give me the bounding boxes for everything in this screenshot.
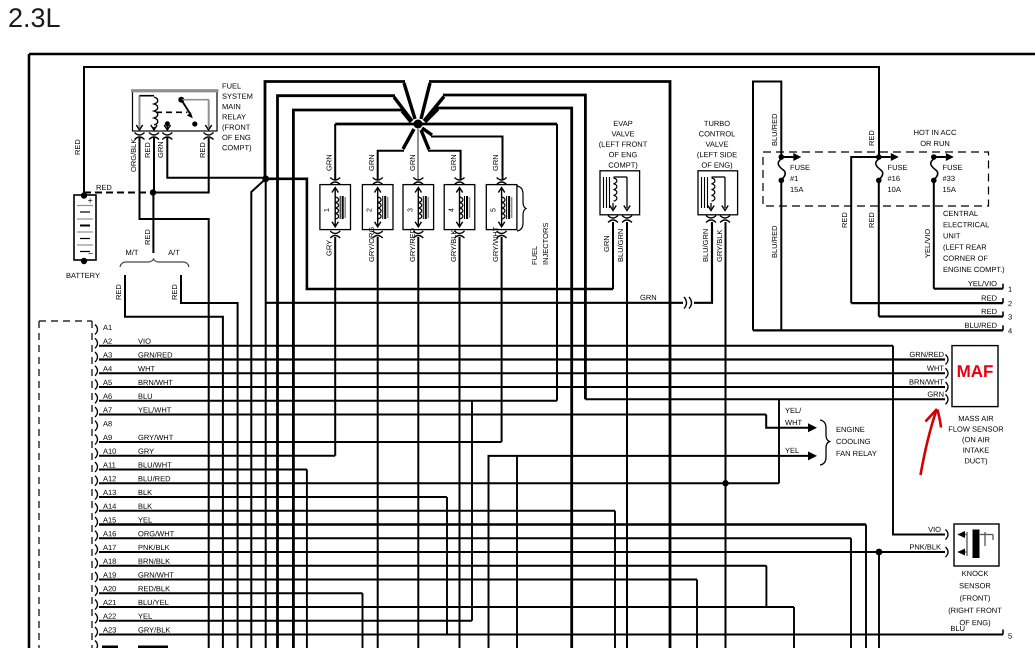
svg-text:A19: A19	[103, 571, 116, 580]
svg-text:RED: RED	[143, 142, 152, 158]
svg-text:RED: RED	[840, 212, 849, 228]
svg-text:ENGINE COMPT.): ENGINE COMPT.)	[943, 265, 1005, 274]
svg-text:WHT: WHT	[785, 418, 802, 427]
svg-text:#1: #1	[790, 174, 798, 183]
svg-text:YEL/WHT: YEL/WHT	[138, 406, 172, 415]
svg-text:−: −	[88, 249, 93, 259]
svg-text:#33: #33	[942, 174, 955, 183]
svg-text:#16: #16	[887, 174, 900, 183]
svg-text:1: 1	[1008, 285, 1012, 294]
svg-text:WHT: WHT	[927, 364, 944, 373]
svg-text:2: 2	[367, 208, 374, 212]
svg-text:A/T: A/T	[168, 248, 180, 257]
svg-text:GRN: GRN	[156, 141, 165, 158]
svg-text:YEL/VIO: YEL/VIO	[923, 229, 932, 258]
svg-text:1: 1	[324, 208, 331, 212]
svg-text:GRN: GRN	[640, 293, 657, 302]
svg-text:RED: RED	[867, 212, 876, 228]
svg-text:A1: A1	[103, 323, 112, 332]
svg-text:ELECTRICAL: ELECTRICAL	[943, 220, 989, 229]
svg-text:BLU/GRN: BLU/GRN	[616, 229, 625, 262]
svg-text:A13: A13	[103, 488, 116, 497]
svg-text:RED: RED	[867, 130, 876, 146]
svg-text:4: 4	[1008, 326, 1012, 335]
svg-text:YEL: YEL	[785, 446, 799, 455]
svg-text:ENGINE: ENGINE	[836, 425, 865, 434]
svg-text:YEL/VIO: YEL/VIO	[968, 279, 997, 288]
svg-text:BLU/RED: BLU/RED	[138, 474, 171, 483]
svg-text:OF ENG: OF ENG	[222, 133, 251, 142]
svg-text:VALVE: VALVE	[611, 129, 634, 138]
svg-text:A5: A5	[103, 378, 112, 387]
svg-text:A18: A18	[103, 557, 116, 566]
svg-text:10A: 10A	[887, 185, 900, 194]
svg-text:BLU: BLU	[950, 624, 965, 633]
svg-text:RED: RED	[198, 142, 207, 158]
svg-text:KNOCK: KNOCK	[962, 569, 989, 578]
svg-text:A17: A17	[103, 543, 116, 552]
svg-text:RED: RED	[981, 307, 997, 316]
svg-text:OF ENG: OF ENG	[609, 150, 638, 159]
svg-text:BLU/RED: BLU/RED	[964, 321, 997, 330]
svg-text:A14: A14	[103, 502, 116, 511]
svg-text:4: 4	[449, 208, 456, 212]
svg-text:BLU/GRN: BLU/GRN	[701, 229, 710, 262]
svg-text:FAN RELAY: FAN RELAY	[836, 449, 877, 458]
svg-text:+: +	[87, 196, 92, 206]
svg-text:CORNER OF: CORNER OF	[943, 254, 988, 263]
svg-text:3: 3	[1008, 313, 1012, 322]
svg-text:A23: A23	[103, 626, 116, 635]
svg-text:GRY/RED: GRY/RED	[408, 227, 417, 262]
svg-text:ORG/BLK: ORG/BLK	[129, 139, 138, 172]
svg-text:ORG/WHT: ORG/WHT	[138, 529, 175, 538]
svg-text:GRN: GRN	[325, 154, 334, 171]
svg-text:A8: A8	[103, 419, 112, 428]
svg-text:SYSTEM: SYSTEM	[222, 92, 253, 101]
svg-text:GRN/WHT: GRN/WHT	[138, 571, 174, 580]
svg-text:A2: A2	[103, 337, 112, 346]
svg-text:FUSE: FUSE	[790, 163, 810, 172]
svg-text:(LEFT SIDE: (LEFT SIDE	[697, 150, 737, 159]
svg-text:VIO: VIO	[138, 337, 151, 346]
svg-text:BLU/RED: BLU/RED	[770, 113, 779, 146]
svg-text:YEL: YEL	[138, 516, 152, 525]
svg-text:UNIT: UNIT	[943, 231, 961, 240]
svg-text:BLK: BLK	[138, 488, 152, 497]
svg-text:GRY/BLK: GRY/BLK	[138, 626, 170, 635]
svg-text:OR RUN: OR RUN	[920, 139, 950, 148]
svg-text:(LEFT FRONT: (LEFT FRONT	[599, 140, 648, 149]
svg-text:RED: RED	[96, 183, 112, 192]
svg-text:RED/BLK: RED/BLK	[138, 584, 170, 593]
svg-text:A11: A11	[103, 461, 116, 470]
svg-text:BLU/WHT: BLU/WHT	[138, 461, 172, 470]
svg-text:(ON AIR: (ON AIR	[962, 435, 991, 444]
svg-text:GRY/BLK: GRY/BLK	[449, 230, 458, 262]
svg-text:A6: A6	[103, 392, 112, 401]
svg-text:A3: A3	[103, 351, 112, 360]
svg-text:WHT: WHT	[138, 364, 155, 373]
svg-text:15A: 15A	[942, 185, 955, 194]
svg-text:GRN/RED: GRN/RED	[138, 351, 173, 360]
svg-text:RED: RED	[170, 284, 179, 300]
svg-text:GRN: GRN	[491, 154, 500, 171]
svg-text:2.3L: 2.3L	[8, 3, 61, 33]
svg-text:OF ENG): OF ENG)	[701, 161, 733, 170]
svg-text:GRN: GRN	[602, 235, 611, 252]
svg-text:(LEFT REAR: (LEFT REAR	[943, 243, 987, 252]
svg-text:HOT IN ACC: HOT IN ACC	[914, 128, 957, 137]
svg-text:MAF: MAF	[957, 362, 994, 381]
svg-text:A21: A21	[103, 598, 116, 607]
svg-text:RED: RED	[143, 229, 152, 245]
svg-text:A15: A15	[103, 516, 116, 525]
svg-text:TURBO: TURBO	[704, 119, 730, 128]
svg-text:FUEL: FUEL	[530, 246, 539, 265]
svg-text:BATTERY: BATTERY	[66, 271, 100, 280]
svg-text:A20: A20	[103, 584, 116, 593]
svg-text:A22: A22	[103, 612, 116, 621]
svg-text:GRN: GRN	[927, 390, 944, 399]
svg-text:INJECTORS: INJECTORS	[541, 223, 550, 265]
svg-text:CENTRAL: CENTRAL	[943, 209, 978, 218]
svg-text:A7: A7	[103, 406, 112, 415]
svg-text:MAIN: MAIN	[222, 102, 241, 111]
svg-text:RED: RED	[114, 284, 123, 300]
svg-text:A10: A10	[103, 447, 116, 456]
svg-text:GRY/BLK: GRY/BLK	[715, 230, 724, 262]
svg-text:A9: A9	[103, 433, 112, 442]
svg-text:GRY/ORG: GRY/ORG	[367, 227, 376, 262]
svg-text:GRY/WHT: GRY/WHT	[138, 433, 174, 442]
svg-text:15A: 15A	[790, 185, 803, 194]
svg-text:GRY/WHT: GRY/WHT	[491, 226, 500, 262]
svg-text:RED: RED	[73, 139, 82, 155]
svg-text:5: 5	[491, 208, 498, 212]
svg-text:DUCT): DUCT)	[964, 456, 988, 465]
svg-text:BRN/BLK: BRN/BLK	[138, 557, 170, 566]
svg-text:(FRONT): (FRONT)	[960, 594, 991, 603]
svg-text:VALVE: VALVE	[705, 140, 728, 149]
svg-text:BLK: BLK	[138, 502, 152, 511]
svg-text:YEL: YEL	[138, 612, 152, 621]
svg-text:MASS AIR: MASS AIR	[958, 414, 994, 423]
svg-text:BRN/WHT: BRN/WHT	[138, 378, 173, 387]
svg-text:PNK/BLK: PNK/BLK	[138, 543, 170, 552]
svg-text:GRY: GRY	[138, 447, 154, 456]
svg-text:3: 3	[407, 208, 414, 212]
svg-text:GRN/RED: GRN/RED	[909, 350, 944, 359]
svg-text:(FRONT: (FRONT	[222, 123, 251, 132]
svg-text:GRN: GRN	[408, 154, 417, 171]
svg-text:PNK/BLK: PNK/BLK	[909, 542, 941, 551]
svg-text:COMPT): COMPT)	[222, 143, 252, 152]
svg-text:A16: A16	[103, 529, 116, 538]
svg-text:FUEL: FUEL	[222, 82, 241, 91]
svg-text:YEL/: YEL/	[785, 406, 802, 415]
svg-text:CONTROL: CONTROL	[699, 129, 736, 138]
svg-text:M/T: M/T	[126, 248, 139, 257]
svg-text:RED: RED	[981, 294, 997, 303]
svg-text:FLOW SENSOR: FLOW SENSOR	[948, 425, 1004, 434]
svg-text:FUSE: FUSE	[942, 163, 962, 172]
svg-text:INTAKE: INTAKE	[963, 446, 990, 455]
svg-text:GRN: GRN	[449, 154, 458, 171]
svg-text:2: 2	[1008, 299, 1012, 308]
svg-text:VIO: VIO	[928, 525, 941, 534]
svg-text:5: 5	[1008, 632, 1012, 641]
svg-text:FUSE: FUSE	[887, 163, 907, 172]
svg-text:BLU/RED: BLU/RED	[770, 225, 779, 258]
svg-text:A12: A12	[103, 474, 116, 483]
svg-text:BLU: BLU	[138, 392, 153, 401]
svg-text:GRN: GRN	[367, 154, 376, 171]
svg-text:(RIGHT FRONT: (RIGHT FRONT	[948, 606, 1002, 615]
svg-text:EVAP: EVAP	[613, 119, 632, 128]
svg-text:RELAY: RELAY	[222, 112, 246, 121]
svg-text:BLU/YEL: BLU/YEL	[138, 598, 169, 607]
svg-text:A4: A4	[103, 364, 112, 373]
svg-text:COMPT): COMPT)	[608, 161, 638, 170]
svg-text:BRN/WHT: BRN/WHT	[909, 377, 944, 386]
svg-text:COOLING: COOLING	[836, 437, 871, 446]
svg-text:SENSOR: SENSOR	[959, 581, 991, 590]
svg-text:GRY: GRY	[325, 240, 334, 256]
